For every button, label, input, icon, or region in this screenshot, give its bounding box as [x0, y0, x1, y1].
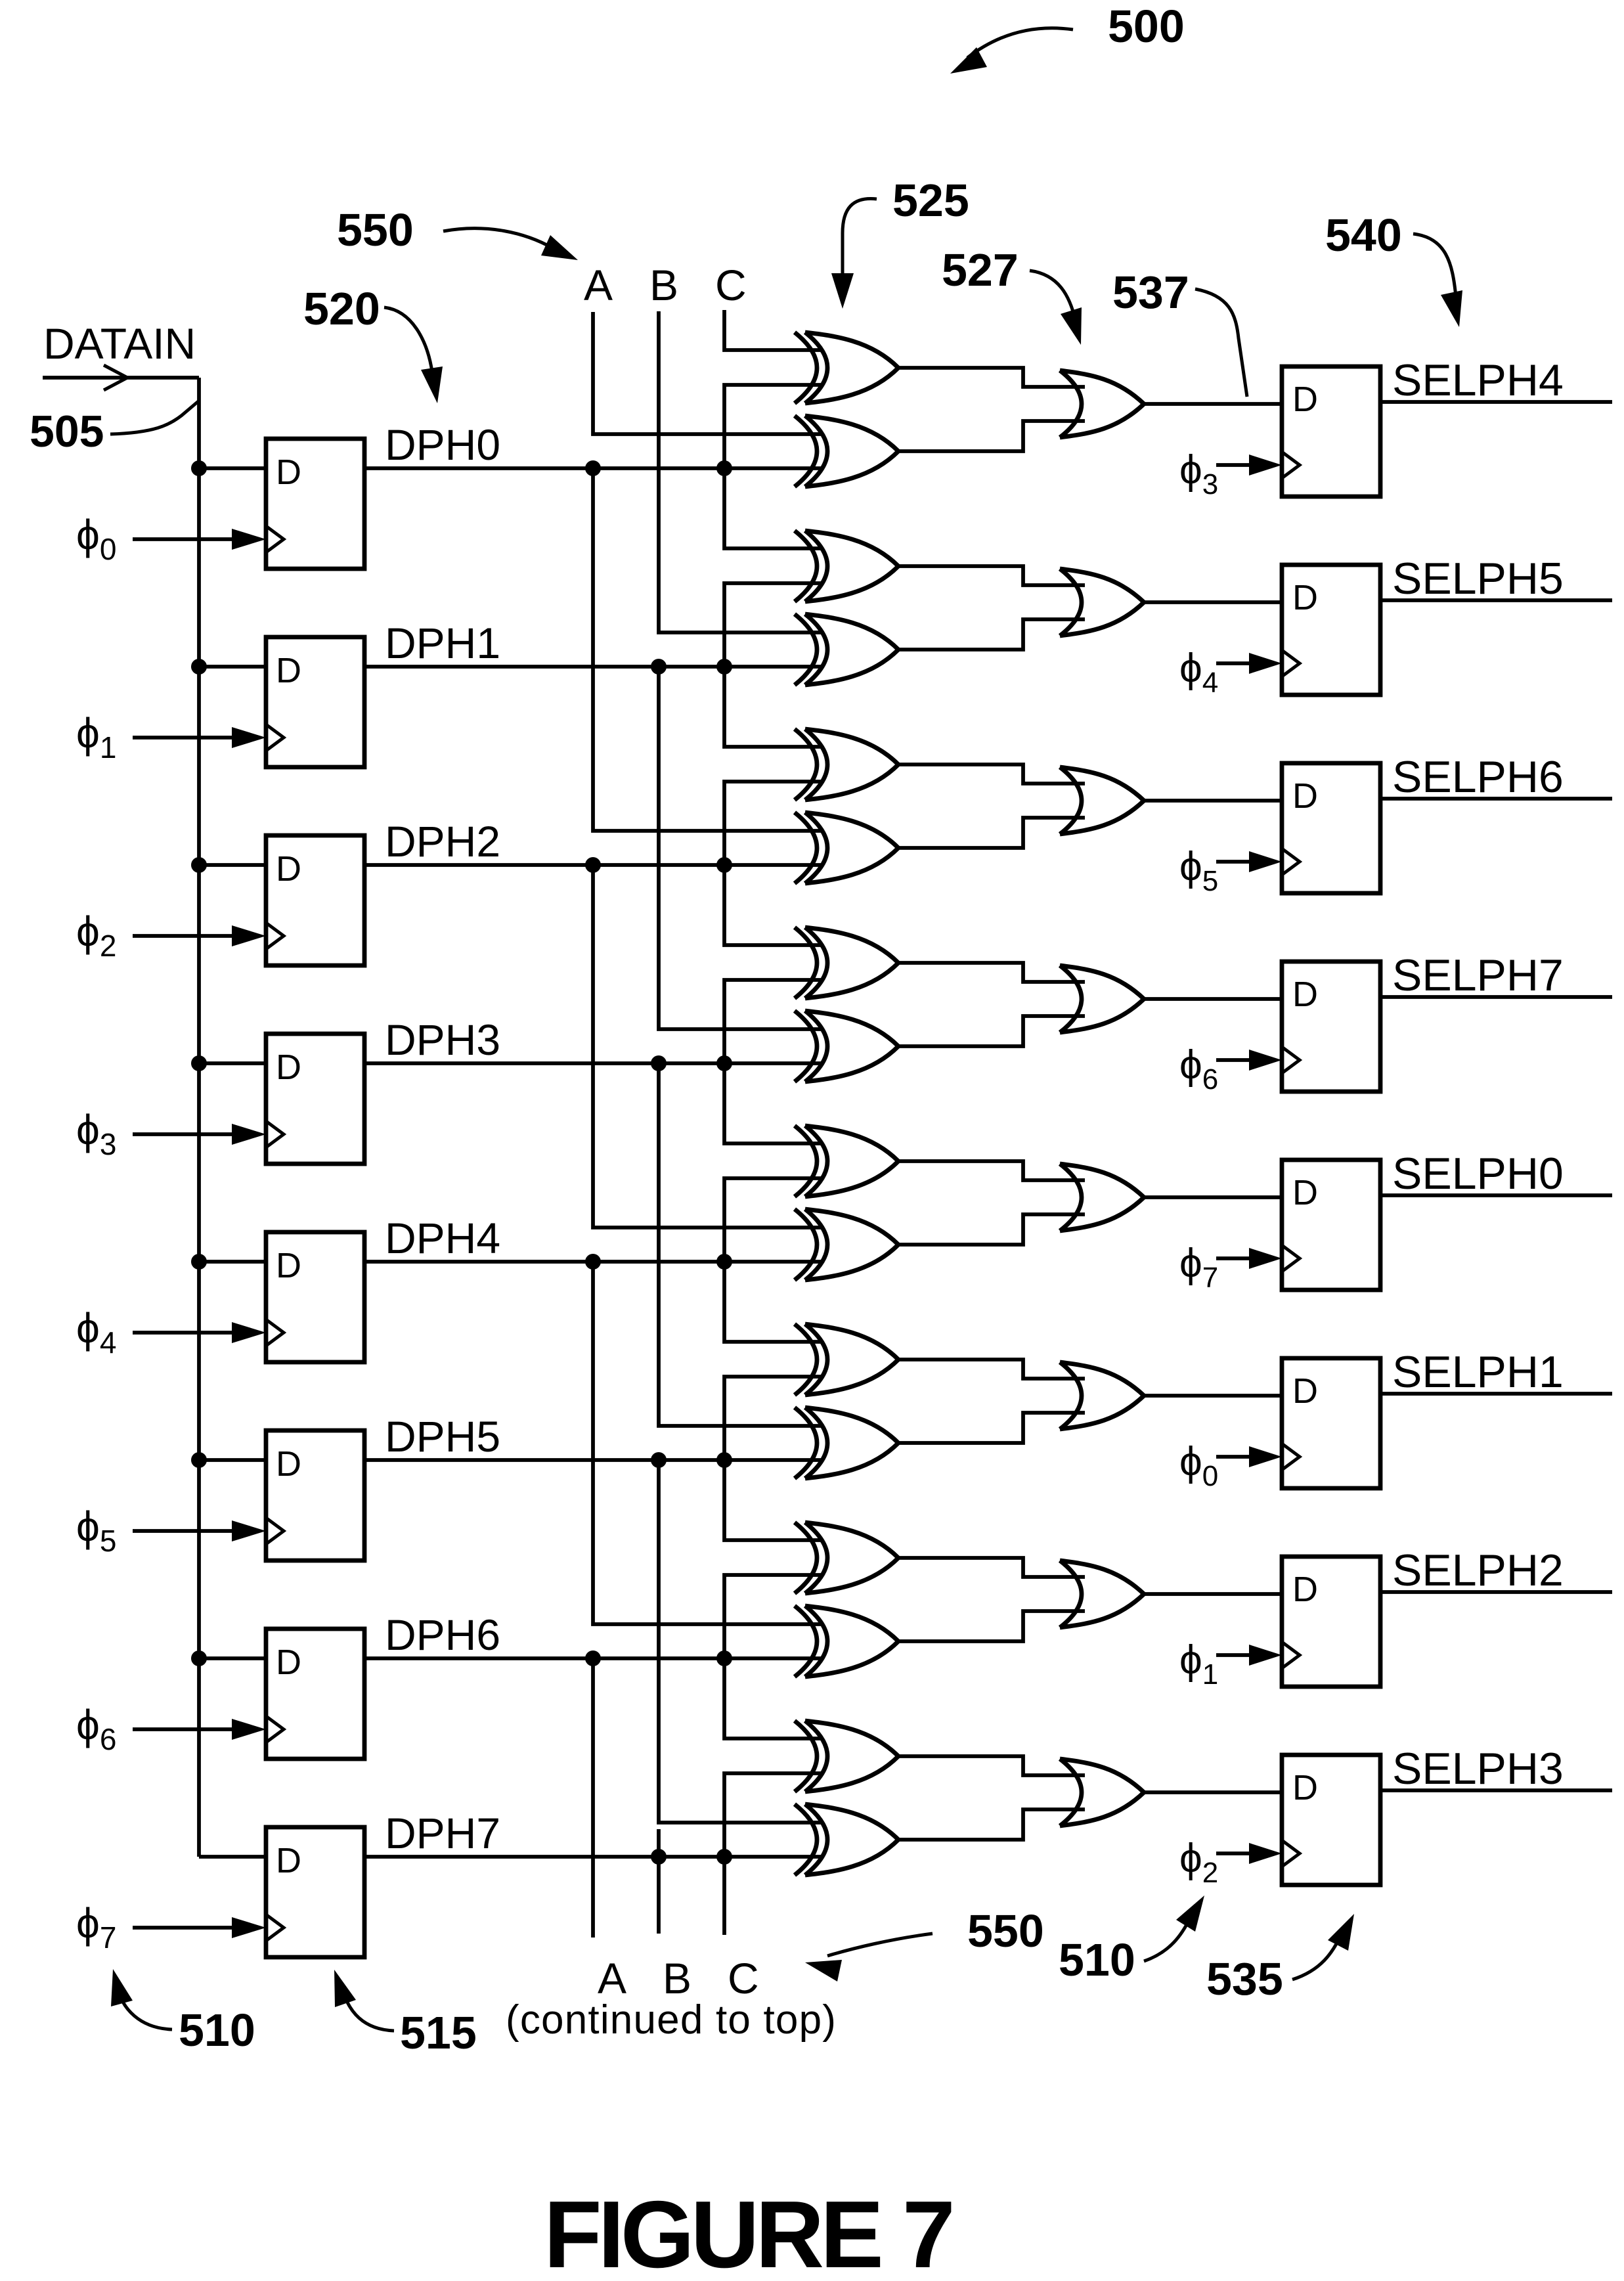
wire C segment 3 (DPH2)	[724, 782, 822, 945]
clock wire phi4	[133, 1331, 233, 1335]
wire XOR upper output to OR row 2	[898, 764, 1085, 784]
wire OR output to FF row 6	[1144, 1592, 1282, 1596]
leader 527	[1030, 271, 1076, 321]
XOR gate 525 row 4 upper	[795, 1126, 898, 1197]
D flip-flop 535 row 7	[1282, 1755, 1380, 1885]
svg-text:ϕ5: ϕ5	[1179, 844, 1218, 897]
svg-text:(continued to top): (continued to top)	[506, 1997, 837, 2043]
svg-text:D: D	[1292, 975, 1318, 1014]
D flip-flop 515 (input stage) row 6	[266, 1629, 364, 1759]
clock arrowhead right row 6	[1249, 1645, 1282, 1666]
svg-text:ϕ1: ϕ1	[76, 709, 116, 764]
junction DPH5/B	[651, 1452, 667, 1468]
clock arrowhead right row 5	[1249, 1446, 1282, 1467]
svg-text:D: D	[1292, 1768, 1318, 1807]
wire C segment 0	[724, 310, 822, 350]
XOR gate 525 row 6 lower	[795, 1606, 898, 1677]
clock wire phi3	[133, 1132, 233, 1136]
svg-text:ϕ2: ϕ2	[76, 908, 116, 963]
DATAIN open arrowhead	[104, 365, 127, 390]
junction DPH2/C	[716, 857, 732, 873]
wire rail to FF2 D input	[199, 863, 266, 867]
D flip-flop 535 row 3	[1282, 962, 1380, 1092]
clock wire phi0	[133, 537, 233, 541]
wire XOR lower output to OR row 0	[898, 421, 1085, 451]
wire XOR upper output to OR row 6	[898, 1558, 1085, 1577]
svg-text:DPH7: DPH7	[385, 1809, 500, 1857]
svg-text:SELPH5: SELPH5	[1392, 554, 1564, 604]
wire XOR lower output to OR row 3	[898, 1016, 1085, 1046]
XOR gate 525 row 5 upper	[795, 1324, 898, 1395]
clock wire phi5	[133, 1529, 233, 1533]
D flip-flop 515 (input stage) row 4	[266, 1232, 364, 1362]
XOR gate 525 row 7 upper	[795, 1721, 898, 1792]
clock arrowhead right row 0	[1249, 454, 1282, 476]
clock arrowhead phi0	[232, 529, 266, 550]
XOR gate 525 row 4 lower	[795, 1209, 898, 1280]
wire C segment 1 (DPH0)	[724, 385, 822, 548]
junction rail/DPH6 tap	[191, 1650, 207, 1666]
junction rail/DPH2 tap	[191, 857, 207, 873]
wire rail to FF6 D input	[199, 1656, 266, 1660]
svg-text:525: 525	[892, 175, 969, 226]
svg-text:D: D	[1292, 776, 1318, 816]
OR gate 527 row 4	[1060, 1164, 1144, 1231]
D flip-flop 535 row 1	[1282, 565, 1380, 695]
svg-text:ϕ4: ϕ4	[76, 1304, 116, 1360]
wire XOR lower output to OR row 1	[898, 619, 1085, 650]
wire DPH1	[364, 665, 822, 669]
clock wire phi1 right	[1216, 1653, 1250, 1657]
wire B segment 0	[659, 311, 822, 632]
svg-text:DATAIN: DATAIN	[43, 319, 196, 368]
clock arrowhead phi1	[232, 727, 266, 748]
wire OR output to FF row 0	[1144, 402, 1282, 406]
wire rail to FF7 D input	[199, 1855, 266, 1859]
clock arrowhead phi2	[232, 925, 266, 946]
wire SELPH6 output	[1380, 797, 1612, 801]
svg-text:SELPH7: SELPH7	[1392, 950, 1564, 1000]
svg-text:D: D	[276, 1841, 301, 1880]
svg-text:ϕ2: ϕ2	[1179, 1836, 1218, 1889]
leader 525	[843, 198, 877, 290]
svg-text:D: D	[276, 453, 301, 492]
clock wire phi5 right	[1216, 860, 1250, 864]
wire SELPH3 output	[1380, 1788, 1612, 1792]
wire SELPH7 output	[1380, 995, 1612, 999]
wire XOR upper output to OR row 3	[898, 963, 1085, 982]
svg-text:500: 500	[1108, 1, 1185, 52]
junction DPH5/C	[716, 1452, 732, 1468]
leader 510 bottom-left	[118, 1989, 172, 2029]
wire A segment 0	[593, 312, 822, 434]
wire OR output to FF row 3	[1144, 997, 1282, 1001]
leader 510 bottom-right	[1144, 1916, 1191, 1961]
svg-text:D: D	[276, 1444, 301, 1484]
wire DPH2	[364, 863, 822, 867]
svg-text:ϕ7: ϕ7	[1179, 1241, 1218, 1294]
D flip-flop 515 (input stage) row 5	[266, 1430, 364, 1561]
svg-text:D: D	[276, 1643, 301, 1682]
junction DPH6/C	[716, 1650, 732, 1666]
wire rail to FF1 D input	[199, 665, 266, 669]
OR gate 527 row 1	[1060, 569, 1144, 636]
svg-text:FIGURE 7: FIGURE 7	[544, 2181, 952, 2281]
junction DPH0/A	[585, 460, 601, 476]
wire C segment 2 (DPH1)	[724, 583, 822, 747]
svg-text:C: C	[728, 1954, 759, 2003]
svg-text:510: 510	[1059, 1934, 1135, 1985]
D flip-flop 515 (input stage) row 1	[266, 637, 364, 767]
svg-text:SELPH0: SELPH0	[1392, 1149, 1564, 1199]
wire C segment 8 (DPH7)	[724, 1773, 822, 1935]
wire A segment 1 (DPH0)	[593, 468, 822, 831]
junction DPH3/B	[651, 1055, 667, 1071]
XOR gate 525 row 0 upper	[795, 332, 898, 403]
wire OR output to FF row 4	[1144, 1195, 1282, 1199]
junction rail/DPH3 tap	[191, 1055, 207, 1071]
junction DPH2/A	[585, 857, 601, 873]
D flip-flop 515 (input stage) row 3	[266, 1034, 364, 1164]
clock wire phi6	[133, 1727, 233, 1731]
wire A segment 2 (DPH2)	[593, 865, 822, 1228]
D flip-flop 515 (input stage) row 0	[266, 439, 364, 569]
clock arrowhead right row 7	[1249, 1843, 1282, 1864]
leader 535	[1292, 1935, 1341, 1980]
wire A segment 3 (DPH4)	[593, 1262, 822, 1624]
D flip-flop 535 row 0	[1282, 366, 1380, 497]
svg-text:ϕ6: ϕ6	[76, 1701, 116, 1756]
OR gate 527 row 5	[1060, 1362, 1144, 1429]
wire OR output to FF row 7	[1144, 1790, 1282, 1794]
XOR gate 525 row 6 upper	[795, 1522, 898, 1593]
svg-text:C: C	[715, 261, 747, 309]
svg-text:ϕ4: ϕ4	[1179, 646, 1218, 699]
junction DPH7/C	[716, 1849, 732, 1865]
junction rail/DPH4 tap	[191, 1254, 207, 1270]
svg-text:537: 537	[1112, 267, 1189, 318]
wire SELPH4 output	[1380, 400, 1612, 404]
OR gate 527 row 6	[1060, 1561, 1144, 1628]
leader 550 top	[443, 229, 553, 248]
wire rail to FF4 D input	[199, 1260, 266, 1264]
wire A segment 4 (DPH6)	[591, 1658, 595, 1938]
svg-text:DPH2: DPH2	[385, 817, 500, 866]
wire XOR upper output to OR row 5	[898, 1360, 1085, 1379]
wire XOR lower output to OR row 7	[898, 1809, 1085, 1840]
clock arrowhead phi3	[232, 1124, 266, 1145]
wire XOR upper output to OR row 0	[898, 368, 1085, 387]
junction DPH0/C	[716, 460, 732, 476]
leader 520	[384, 307, 432, 372]
svg-text:550: 550	[967, 1905, 1044, 1957]
svg-text:SELPH6: SELPH6	[1392, 752, 1564, 802]
wire XOR lower output to OR row 5	[898, 1413, 1085, 1443]
wire DPH6	[364, 1656, 822, 1660]
wire DPH5	[364, 1458, 822, 1462]
D flip-flop 535 row 4	[1282, 1160, 1380, 1290]
clock arrowhead phi5	[232, 1520, 266, 1541]
svg-text:D: D	[1292, 1570, 1318, 1609]
svg-text:D: D	[276, 1246, 301, 1285]
svg-text:D: D	[276, 651, 301, 690]
wire SELPH0 output	[1380, 1193, 1612, 1197]
svg-text:D: D	[276, 1048, 301, 1087]
junction rail/DPH0 tap	[191, 460, 207, 476]
clock wire phi2 right	[1216, 1851, 1250, 1855]
wire rail to FF3 D input	[199, 1061, 266, 1065]
clock arrowhead right row 4	[1249, 1248, 1282, 1269]
XOR gate 525 row 2 upper	[795, 729, 898, 800]
clock arrowhead phi6	[232, 1719, 266, 1740]
svg-text:ϕ7: ϕ7	[76, 1899, 116, 1955]
wire B segment 2 (DPH3)	[659, 1063, 822, 1426]
svg-text:520: 520	[303, 283, 380, 334]
clock arrowhead right row 2	[1249, 851, 1282, 872]
junction DPH6/A	[585, 1650, 601, 1666]
wire C segment 5 (DPH4)	[724, 1178, 822, 1342]
XOR gate 525 row 5 lower	[795, 1407, 898, 1478]
junction rail/DPH1 tap	[191, 659, 207, 675]
OR gate 527 row 2	[1060, 767, 1144, 834]
svg-text:510: 510	[179, 2004, 255, 2056]
junction DPH7/B	[651, 1849, 667, 1865]
svg-text:ϕ3: ϕ3	[76, 1106, 116, 1161]
svg-text:B: B	[649, 261, 678, 309]
wire OR output to FF row 5	[1144, 1394, 1282, 1398]
svg-text:ϕ0: ϕ0	[1179, 1439, 1218, 1492]
svg-text:ϕ5: ϕ5	[76, 1503, 116, 1558]
node 505 leader	[110, 401, 198, 434]
svg-text:ϕ3: ϕ3	[1179, 447, 1218, 500]
wire SELPH2 output	[1380, 1590, 1612, 1594]
leader 515	[343, 1991, 394, 2031]
XOR gate 525 row 1 upper	[795, 531, 898, 602]
svg-text:SELPH2: SELPH2	[1392, 1545, 1564, 1595]
wire XOR lower output to OR row 6	[898, 1611, 1085, 1641]
clock wire phi7	[133, 1926, 233, 1930]
XOR gate 525 row 3 upper	[795, 927, 898, 998]
wire DPH0	[364, 466, 822, 470]
XOR gate 525 row 2 lower	[795, 812, 898, 883]
svg-text:DPH1: DPH1	[385, 619, 500, 667]
junction DPH1/C	[716, 659, 732, 675]
wire SELPH1 output	[1380, 1392, 1612, 1396]
D flip-flop 535 row 5	[1282, 1358, 1380, 1488]
svg-text:505: 505	[30, 407, 104, 456]
OR gate 527 row 0	[1060, 370, 1144, 437]
svg-text:D: D	[1292, 1173, 1318, 1212]
clock arrowhead phi4	[232, 1322, 266, 1343]
svg-text:DPH4: DPH4	[385, 1214, 500, 1262]
wire B segment 3 (DPH5)	[659, 1460, 822, 1823]
wire C segment 6 (DPH5)	[724, 1377, 822, 1540]
wire B segment 1 (DPH1)	[659, 667, 822, 1029]
clock arrowhead right row 3	[1249, 1050, 1282, 1071]
wire XOR upper output to OR row 4	[898, 1161, 1085, 1180]
svg-text:ϕ1: ϕ1	[1179, 1637, 1218, 1691]
leader 500	[967, 28, 1073, 58]
wire rail to FF0 D input	[199, 466, 266, 470]
OR gate 527 row 7	[1060, 1759, 1144, 1826]
clock wire phi1	[133, 736, 233, 740]
XOR gate 525 row 3 lower	[795, 1011, 898, 1082]
D flip-flop 515 (input stage) row 7	[266, 1827, 364, 1957]
wire OR output to FF row 2	[1144, 799, 1282, 803]
wire XOR lower output to OR row 2	[898, 818, 1085, 848]
clock wire phi2	[133, 934, 233, 938]
svg-text:D: D	[1292, 1371, 1318, 1411]
svg-text:A: A	[584, 261, 613, 309]
svg-text:527: 527	[942, 244, 1019, 296]
svg-text:SELPH1: SELPH1	[1392, 1347, 1564, 1397]
svg-text:515: 515	[400, 2007, 477, 2058]
D flip-flop 535 row 2	[1282, 763, 1380, 893]
svg-text:A: A	[598, 1954, 626, 2003]
XOR gate 525 row 1 lower	[795, 614, 898, 685]
wire XOR lower output to OR row 4	[898, 1214, 1085, 1245]
wire DPH7	[364, 1855, 822, 1859]
svg-text:SELPH4: SELPH4	[1392, 355, 1564, 405]
clock wire phi7 right	[1216, 1256, 1250, 1260]
svg-text:B: B	[663, 1954, 691, 2003]
junction DPH1/B	[651, 659, 667, 675]
clock wire phi4 right	[1216, 661, 1250, 665]
XOR gate 525 row 7 lower	[795, 1804, 898, 1875]
wire XOR upper output to OR row 7	[898, 1756, 1085, 1775]
wire C segment 4 (DPH3)	[724, 980, 822, 1143]
svg-text:DPH5: DPH5	[385, 1412, 500, 1461]
svg-text:D: D	[1292, 578, 1318, 617]
D flip-flop 515 (input stage) row 2	[266, 835, 364, 965]
svg-text:540: 540	[1325, 210, 1402, 261]
svg-text:DPH0: DPH0	[385, 420, 500, 469]
wire OR output to FF row 1	[1144, 600, 1282, 604]
leader 540	[1413, 234, 1456, 297]
svg-text:SELPH3: SELPH3	[1392, 1744, 1564, 1794]
svg-text:535: 535	[1206, 1953, 1283, 2004]
OR gate 527 row 3	[1060, 965, 1144, 1032]
svg-text:ϕ0: ϕ0	[76, 511, 116, 566]
svg-text:D: D	[276, 849, 301, 889]
wire B segment 4 (DPH7)	[657, 1829, 661, 1934]
svg-text:DPH6: DPH6	[385, 1610, 500, 1659]
clock wire phi0 right	[1216, 1455, 1250, 1459]
leader 537	[1195, 289, 1247, 397]
D flip-flop 535 row 6	[1282, 1557, 1380, 1687]
svg-text:550: 550	[337, 204, 414, 255]
clock wire phi6 right	[1216, 1058, 1250, 1062]
wire XOR upper output to OR row 1	[898, 566, 1085, 585]
XOR gate 525 row 0 lower	[795, 416, 898, 487]
junction DPH4/C	[716, 1254, 732, 1270]
clock wire phi3 right	[1216, 463, 1250, 467]
leader 550 bottom	[827, 1934, 933, 1956]
wire rail to FF5 D input	[199, 1458, 266, 1462]
svg-text:ϕ6: ϕ6	[1179, 1042, 1218, 1096]
wire C segment 7 (DPH6)	[724, 1575, 822, 1738]
wire DPH3	[364, 1061, 822, 1065]
wire DATAIN rail 505	[197, 378, 201, 1857]
svg-text:D: D	[1292, 380, 1318, 419]
clock arrowhead phi7	[232, 1917, 266, 1938]
wire DPH4	[364, 1260, 822, 1264]
junction DPH3/C	[716, 1055, 732, 1071]
clock arrowhead right row 1	[1249, 653, 1282, 674]
svg-text:DPH3: DPH3	[385, 1015, 500, 1064]
wire SELPH5 output	[1380, 598, 1612, 602]
junction rail/DPH5 tap	[191, 1452, 207, 1468]
wire DATAIN input	[43, 376, 199, 380]
junction DPH4/A	[585, 1254, 601, 1270]
